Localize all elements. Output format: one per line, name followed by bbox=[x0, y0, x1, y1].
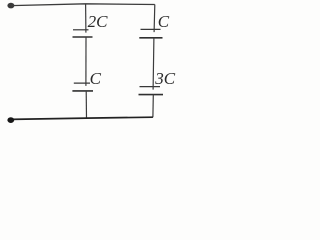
capacitor C3 value C: top plate bbox=[141, 28, 161, 30]
wire: middle branch lead from capacitor C2 down to bottom rail bbox=[85, 91, 87, 118]
capacitor C2 value C: top plate bbox=[74, 82, 90, 84]
terminal dot (bottom-left input node) bbox=[7, 117, 14, 123]
capacitor C3 value C: bottom plate bbox=[139, 37, 162, 39]
wire: right branch lead between capacitor C3 and capacitor 3C bbox=[152, 38, 155, 90]
capacitor C4 value 3C: top plate bbox=[140, 86, 161, 88]
capacitor C4 value 3C: bottom plate bbox=[139, 94, 164, 96]
wire: middle branch lead between capacitor 2C and capacitor C2 bbox=[85, 37, 87, 86]
terminal dot (top-left input node) bbox=[7, 3, 14, 9]
svg-text:C: C bbox=[158, 12, 170, 31]
svg-text:3C: 3C bbox=[154, 69, 176, 88]
capacitor C1 value 2C: top plate bbox=[73, 29, 89, 31]
svg-text:C: C bbox=[90, 69, 102, 88]
capacitor C1 value 2C: bottom plate bbox=[73, 36, 93, 38]
wire: middle branch lead from top rail into capacitor 2C bbox=[85, 4, 87, 33]
wire: bottom rail from left terminal to bottom-right corner bbox=[11, 117, 153, 119]
svg-text:2C: 2C bbox=[88, 12, 109, 31]
wire: top rail from left terminal to top-right corner bbox=[11, 4, 155, 6]
wire: right branch lead from top-right corner into capacitor C3 bbox=[153, 5, 156, 33]
wire: right branch lead from capacitor 3C down to bottom-right corner bbox=[152, 95, 154, 118]
capacitor C2 value C: bottom plate bbox=[72, 90, 93, 92]
